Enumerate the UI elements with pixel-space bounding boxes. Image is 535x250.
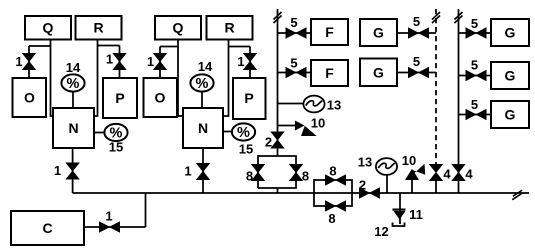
svg-text:11: 11 xyxy=(409,207,423,222)
svg-text:5: 5 xyxy=(471,16,478,31)
svg-text:P: P xyxy=(244,90,253,106)
svg-text:15: 15 xyxy=(239,142,253,157)
svg-text:4: 4 xyxy=(443,167,451,182)
svg-text:5: 5 xyxy=(413,14,420,29)
svg-text:8: 8 xyxy=(246,169,253,184)
svg-text:5: 5 xyxy=(290,56,297,71)
svg-text:G: G xyxy=(373,25,384,41)
svg-text:F: F xyxy=(325,24,334,40)
svg-text:Q: Q xyxy=(173,20,184,36)
svg-text:P: P xyxy=(115,90,124,106)
svg-text:5: 5 xyxy=(471,97,478,112)
svg-text:O: O xyxy=(155,90,166,106)
svg-text:G: G xyxy=(505,25,516,41)
svg-text:10: 10 xyxy=(402,153,416,168)
svg-text:1: 1 xyxy=(54,163,61,178)
svg-text:1: 1 xyxy=(237,54,244,69)
svg-text:G: G xyxy=(505,68,516,84)
svg-text:N: N xyxy=(68,120,78,136)
svg-text:2: 2 xyxy=(265,135,272,150)
svg-text:G: G xyxy=(373,65,384,81)
svg-text:F: F xyxy=(325,65,334,81)
svg-text:1: 1 xyxy=(147,54,154,69)
svg-text:1: 1 xyxy=(106,52,113,67)
svg-text:1: 1 xyxy=(105,209,112,224)
svg-text:R: R xyxy=(93,20,103,36)
svg-text:10: 10 xyxy=(311,116,325,131)
svg-text:12: 12 xyxy=(374,224,388,239)
svg-text:15: 15 xyxy=(109,140,123,155)
svg-text:8: 8 xyxy=(328,211,335,226)
svg-text:14: 14 xyxy=(66,60,81,75)
svg-text:5: 5 xyxy=(413,54,420,69)
svg-text:5: 5 xyxy=(290,15,297,30)
svg-text:G: G xyxy=(505,107,516,123)
svg-text:4: 4 xyxy=(465,167,473,182)
svg-text:R: R xyxy=(224,20,234,36)
svg-text:8: 8 xyxy=(302,169,309,184)
svg-text:C: C xyxy=(42,220,52,236)
svg-text:2: 2 xyxy=(359,178,366,193)
svg-text:13: 13 xyxy=(358,155,372,170)
svg-text:8: 8 xyxy=(329,164,336,179)
svg-text:13: 13 xyxy=(327,98,341,113)
svg-text:5: 5 xyxy=(471,58,478,73)
svg-text:1: 1 xyxy=(15,54,22,69)
svg-text:N: N xyxy=(198,120,208,136)
svg-text:14: 14 xyxy=(198,59,213,74)
svg-text:O: O xyxy=(24,90,35,106)
svg-text:1: 1 xyxy=(184,164,191,179)
svg-text:Q: Q xyxy=(43,20,54,36)
